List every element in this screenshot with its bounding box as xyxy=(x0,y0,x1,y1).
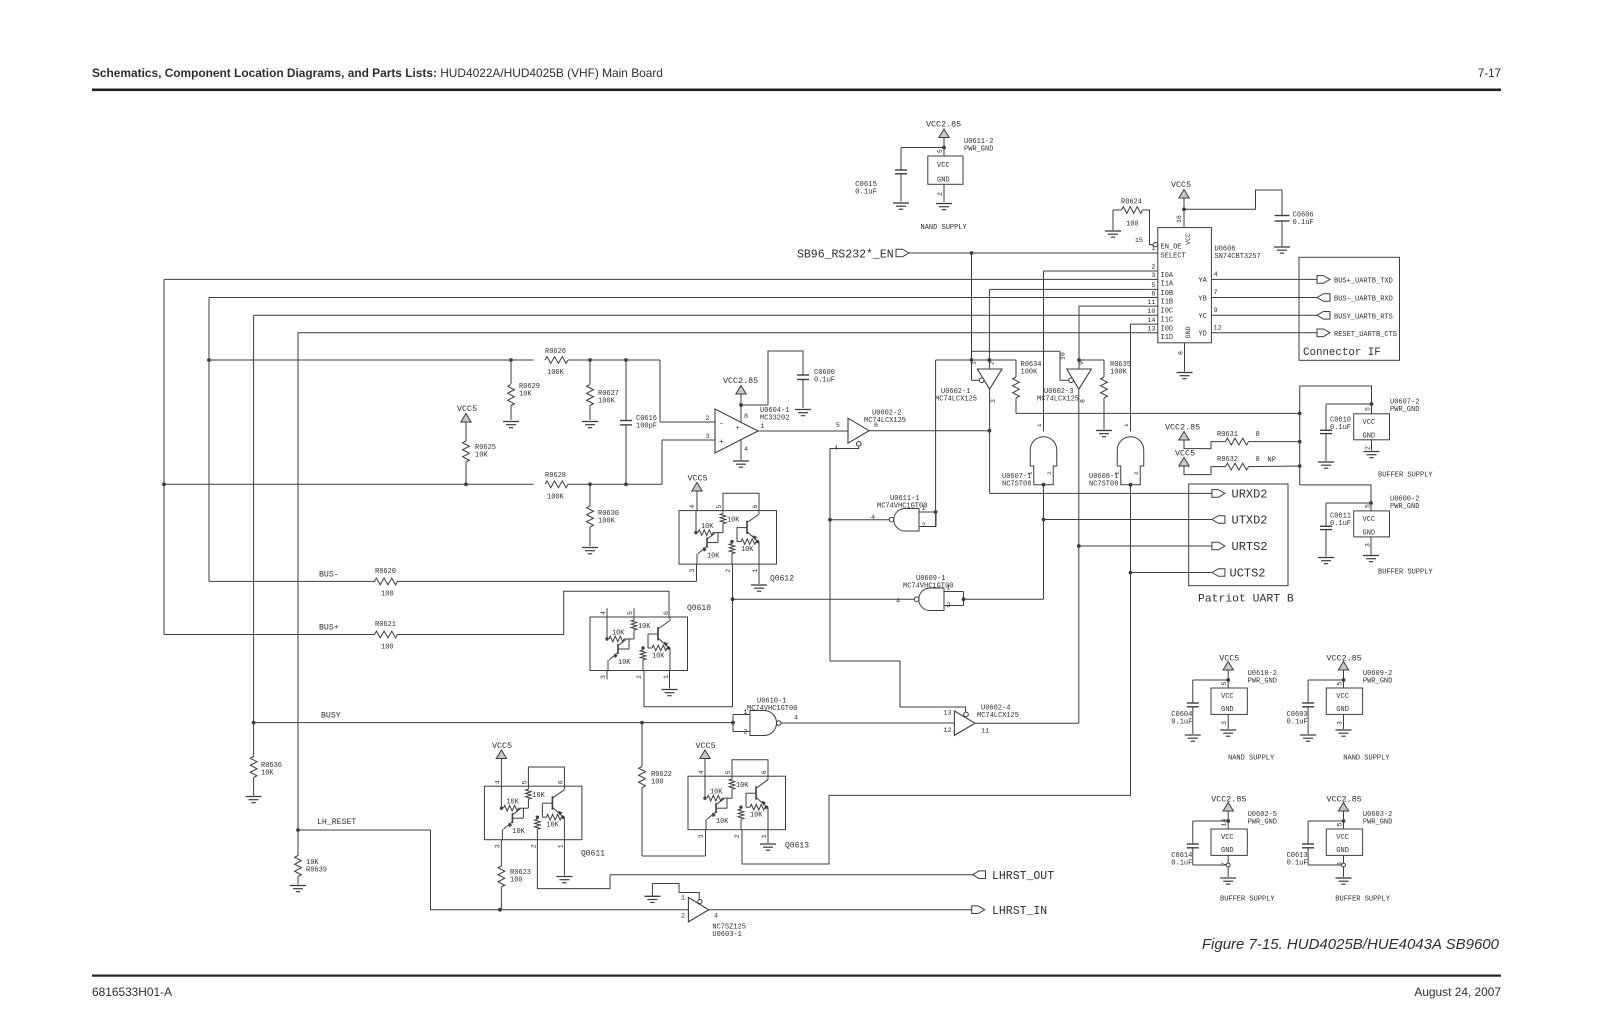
svg-text:3: 3 xyxy=(600,675,607,679)
wire VCC2.85 to R0631 xyxy=(1184,441,1226,449)
signal flag BUS+_UARTB_TXD xyxy=(1317,276,1330,284)
wire VCC5 to C0606 xyxy=(1184,190,1282,216)
NAND gate U0609-1 xyxy=(919,588,944,611)
svg-text:VCC5: VCC5 xyxy=(1219,654,1239,664)
svg-text:100K: 100K xyxy=(598,398,616,406)
svg-text:10K: 10K xyxy=(741,546,754,554)
capacitor C0604 xyxy=(1187,702,1199,704)
wire bus I1B xyxy=(209,297,1158,299)
wire VCC2.85 to op-amp pin 8 xyxy=(740,395,742,422)
svg-text:R0632: R0632 xyxy=(1217,456,1238,464)
Patriot UART B box xyxy=(1189,484,1288,586)
svg-text:I0D: I0D xyxy=(1161,325,1174,333)
svg-text:Q0613: Q0613 xyxy=(785,842,809,851)
svg-text:R0628: R0628 xyxy=(545,472,566,480)
wire U0611-1 pins tie xyxy=(919,511,936,513)
svg-text:R0620: R0620 xyxy=(375,568,396,576)
power net VCC5 above R0625 xyxy=(461,414,471,423)
power block U0602-5 box xyxy=(1211,829,1247,855)
wire node to R0626 xyxy=(209,359,534,361)
svg-text:U0603-1: U0603-1 xyxy=(712,931,741,939)
svg-text:1: 1 xyxy=(761,423,765,431)
svg-text:2: 2 xyxy=(1151,264,1155,272)
resistor R0621 xyxy=(375,631,398,638)
power block U0603-2 VCC symbol xyxy=(1338,803,1348,812)
svg-text:UCTS2: UCTS2 xyxy=(1230,567,1266,581)
svg-text:PWR_GND: PWR_GND xyxy=(1363,819,1392,827)
wire Q0612 pin1 ground xyxy=(758,564,760,584)
svg-text:100K: 100K xyxy=(547,369,565,377)
svg-text:R0631: R0631 xyxy=(1217,431,1238,439)
ground under C0611 xyxy=(1318,557,1334,559)
power block U0600-2 ground xyxy=(1370,537,1372,555)
svg-text:VCC2.85: VCC2.85 xyxy=(1327,654,1362,664)
svg-text:4: 4 xyxy=(600,611,607,615)
Connector IF box xyxy=(1299,257,1400,360)
signal flag BUS-_UARTB_RXD xyxy=(1317,294,1330,302)
signal flag URXD2 xyxy=(1212,490,1225,498)
ground under R0639 xyxy=(290,885,306,887)
svg-text:5: 5 xyxy=(1151,282,1155,290)
svg-text:11: 11 xyxy=(1147,299,1155,307)
svg-text:R0624: R0624 xyxy=(1121,199,1142,207)
wire R0624 to EN_OE xyxy=(1143,210,1154,245)
svg-text:14: 14 xyxy=(1147,317,1155,325)
wire I0A net xyxy=(1044,270,1158,272)
svg-text:4: 4 xyxy=(714,913,718,921)
wire bus I1A xyxy=(164,278,1158,280)
ground under R0636 xyxy=(246,796,262,798)
svg-text:4: 4 xyxy=(744,446,748,454)
svg-text:1: 1 xyxy=(752,569,759,573)
resistor R0627 xyxy=(589,360,591,384)
svg-text:VCC5: VCC5 xyxy=(696,741,716,751)
buffer U0602-2 xyxy=(848,418,869,443)
svg-text:VCC5: VCC5 xyxy=(457,404,477,414)
wire bus I1C xyxy=(254,314,1158,316)
signal flag UCTS2 xyxy=(1212,569,1225,577)
svg-text:100K: 100K xyxy=(547,494,565,502)
svg-text:BUFFER SUPPLY: BUFFER SUPPLY xyxy=(1335,896,1390,904)
svg-text:3: 3 xyxy=(1365,543,1372,547)
wire VCC5 to U0606 pin16 xyxy=(1183,199,1185,228)
svg-text:VCC: VCC xyxy=(1363,419,1376,427)
svg-text:GND: GND xyxy=(1185,326,1193,338)
svg-text:1: 1 xyxy=(663,675,670,679)
capacitor C0613 xyxy=(1302,843,1314,845)
power block U0607-2 ground xyxy=(1371,440,1373,451)
capacitor C0614 xyxy=(1187,843,1199,845)
svg-text:VCC2.85: VCC2.85 xyxy=(1211,795,1246,805)
svg-text:0.1uF: 0.1uF xyxy=(1287,860,1308,868)
svg-text:5: 5 xyxy=(1221,682,1228,686)
svg-text:10K: 10K xyxy=(546,822,559,830)
svg-text:10K: 10K xyxy=(710,789,723,797)
svg-text:3: 3 xyxy=(698,834,705,838)
svg-text:10K: 10K xyxy=(638,623,651,631)
svg-text:10K: 10K xyxy=(618,659,631,667)
svg-text:100K: 100K xyxy=(1021,369,1039,377)
svg-text:NAND SUPPLY: NAND SUPPLY xyxy=(921,224,968,232)
svg-text:10K: 10K xyxy=(727,517,740,525)
ground under R0627 xyxy=(582,421,598,423)
op-amp pin 4 ground xyxy=(740,441,742,461)
ground under C0615 xyxy=(893,202,909,204)
svg-text:4: 4 xyxy=(871,514,875,522)
svg-text:10K: 10K xyxy=(701,523,714,531)
wire Q0613 pins 5-6 bracket xyxy=(732,760,768,776)
svg-text:10: 10 xyxy=(1147,308,1155,316)
svg-text:R0621: R0621 xyxy=(375,621,396,629)
svg-text:100K: 100K xyxy=(1110,369,1128,377)
svg-text:BUSY: BUSY xyxy=(321,712,341,721)
wire U0602-1 output to URXD2 xyxy=(989,389,991,493)
svg-text:1: 1 xyxy=(743,709,747,717)
power block U0609-2 wires xyxy=(1343,671,1345,689)
ground at U0603-1 enable xyxy=(644,895,660,897)
svg-text:BUS+: BUS+ xyxy=(319,624,339,633)
svg-text:0.1uF: 0.1uF xyxy=(855,189,877,197)
svg-text:VCC: VCC xyxy=(1221,693,1234,701)
power net VCC5 at R0632 xyxy=(1179,458,1189,467)
wire U0611-1 input column xyxy=(936,359,990,361)
buffer U0603-1 xyxy=(688,898,708,922)
capacitor C0610 xyxy=(1325,404,1327,430)
svg-text:YC: YC xyxy=(1198,313,1206,321)
svg-text:3: 3 xyxy=(990,399,997,403)
resistor R0626 xyxy=(545,357,568,364)
wire U0609-1 output xyxy=(733,598,915,600)
svg-text:NC7ST08: NC7ST08 xyxy=(1002,481,1031,489)
svg-text:BUS-_UARTB_RXD: BUS-_UARTB_RXD xyxy=(1334,296,1393,304)
svg-text:VCC: VCC xyxy=(1221,834,1234,842)
svg-text:VCC5: VCC5 xyxy=(1175,449,1195,459)
svg-text:2: 2 xyxy=(1365,446,1372,450)
wire to C0615 xyxy=(901,147,944,149)
svg-text:VCC: VCC xyxy=(1185,233,1193,245)
svg-text:VCC5: VCC5 xyxy=(492,741,512,751)
svg-text:4: 4 xyxy=(689,505,696,509)
AND gate U0607-1 xyxy=(1030,437,1057,485)
svg-text:0.1uF: 0.1uF xyxy=(1293,219,1314,227)
resistor R0634 xyxy=(989,359,1016,361)
wire U0610-1 pins tie xyxy=(733,714,750,716)
wire Q0612 pin3 stub xyxy=(696,564,698,569)
wire Q0613 pin1 ground xyxy=(767,830,769,843)
resistor R0631 xyxy=(1226,438,1249,445)
transistor pack Q0611 box xyxy=(484,786,582,840)
power block U0603-2 ground pin xyxy=(1343,855,1345,863)
wire enable to buffers xyxy=(971,253,973,380)
svg-text:12: 12 xyxy=(943,727,951,735)
wire U0609-1 pins tie xyxy=(944,591,964,593)
signal flag LHRST_IN xyxy=(972,906,985,914)
ground under C0606 xyxy=(1274,246,1290,248)
wire Q0611 pin2 to LHRST_OUT xyxy=(537,840,610,889)
signal flag URTS2 xyxy=(1212,542,1225,550)
power block U0600-2 box xyxy=(1354,511,1390,537)
svg-text:5: 5 xyxy=(521,780,528,784)
svg-text:I1C: I1C xyxy=(1161,316,1174,324)
svg-text:8: 8 xyxy=(744,413,748,421)
svg-text:5: 5 xyxy=(725,770,732,774)
power net VCC2.85 at R0631 xyxy=(1179,432,1189,441)
transistor pack Q0610 internals xyxy=(606,617,608,639)
svg-text:1: 1 xyxy=(681,895,685,903)
power block U0602-5 wires xyxy=(1227,812,1229,830)
svg-text:4: 4 xyxy=(794,715,798,723)
header rule xyxy=(92,89,1501,92)
svg-text:Q0611: Q0611 xyxy=(581,850,605,859)
svg-text:0: 0 xyxy=(1256,431,1260,439)
svg-text:100: 100 xyxy=(651,779,664,787)
svg-text:7-17: 7-17 xyxy=(1478,67,1501,80)
svg-text:GND: GND xyxy=(1221,847,1234,855)
svg-text:6: 6 xyxy=(557,780,564,784)
svg-text:MC33202: MC33202 xyxy=(760,415,789,423)
power block U0611-2 ground pin xyxy=(943,184,945,202)
wire Q0612 pins 5-6 bracket xyxy=(723,493,759,510)
svg-text:0.1uF: 0.1uF xyxy=(814,377,835,385)
transistor pack Q0613 internals xyxy=(704,776,706,798)
svg-text:I0A: I0A xyxy=(1161,272,1174,280)
transistor pack Q0612 box xyxy=(679,511,777,564)
capacitor C0616 xyxy=(625,360,627,421)
svg-text:BUFFER SUPPLY: BUFFER SUPPLY xyxy=(1378,472,1433,480)
wire LHRST_OUT line xyxy=(610,874,973,876)
svg-text:10K: 10K xyxy=(519,391,532,399)
svg-text:I1B: I1B xyxy=(1161,299,1174,307)
svg-text:I0B: I0B xyxy=(1161,290,1174,298)
svg-text:NAND SUPPLY: NAND SUPPLY xyxy=(1343,755,1390,763)
svg-text:VCC2.85: VCC2.85 xyxy=(723,376,758,386)
buffer U0602-3 xyxy=(1067,369,1092,389)
svg-text:MC74LCX125: MC74LCX125 xyxy=(1037,396,1079,404)
svg-text:Schematics, Component Location: Schematics, Component Location Diagrams,… xyxy=(92,66,663,80)
wire LHRST_IN line xyxy=(709,909,972,911)
svg-text:5: 5 xyxy=(937,149,944,153)
wire Q0610 pin3 stub xyxy=(606,671,608,680)
wire bus to R0628 xyxy=(164,483,534,485)
svg-text:5: 5 xyxy=(716,505,723,509)
wire YC to connector xyxy=(1211,314,1317,316)
op-amp U0604-1 xyxy=(715,409,758,453)
power block U0610-2 VCC symbol xyxy=(1223,662,1233,671)
wire URTS2 line xyxy=(1079,545,1212,547)
wire BUS- left xyxy=(209,580,375,582)
svg-text:13: 13 xyxy=(943,710,951,718)
svg-text:URXD2: URXD2 xyxy=(1232,488,1268,502)
wire op-amp output to U0602-2 xyxy=(758,430,848,432)
transistor pack Q0613 box xyxy=(688,776,786,830)
svg-text:2: 2 xyxy=(743,729,747,737)
signal flag UTXD2 xyxy=(1212,516,1225,524)
svg-text:7: 7 xyxy=(1214,289,1218,297)
wire Q0611 pin1 ground xyxy=(563,840,565,876)
svg-text:SN74CBT3257: SN74CBT3257 xyxy=(1215,253,1261,261)
svg-text:0.1uF: 0.1uF xyxy=(1287,719,1308,727)
wire Q0612 pin2 to net xyxy=(732,564,734,707)
capacitor C0600 xyxy=(797,374,809,376)
svg-text:GND: GND xyxy=(937,177,950,185)
wire I0B net xyxy=(989,288,1157,290)
svg-text:MC74VHC1GT00: MC74VHC1GT00 xyxy=(877,503,927,511)
svg-text:100: 100 xyxy=(381,644,394,652)
power block U0602-5 VCC symbol xyxy=(1223,803,1233,812)
wire bus I1D xyxy=(298,332,1158,334)
svg-text:3: 3 xyxy=(706,433,710,441)
svg-text:100pF: 100pF xyxy=(636,423,657,431)
buffer U0602-4 xyxy=(954,711,975,735)
buffer U0602-1 xyxy=(977,369,1002,389)
svg-text:8: 8 xyxy=(1178,351,1185,355)
svg-text:8: 8 xyxy=(1080,399,1087,403)
svg-text:PWR_GND: PWR_GND xyxy=(1390,406,1419,414)
wire op-amp to C0600 xyxy=(741,351,803,405)
svg-text:LHRST_IN: LHRST_IN xyxy=(992,905,1047,918)
svg-text:I1D: I1D xyxy=(1161,334,1174,342)
power net VCC5 for U0606 xyxy=(1179,190,1189,199)
wire U0602-2 enable net xyxy=(830,446,966,712)
svg-text:Connector IF: Connector IF xyxy=(1303,347,1381,359)
svg-text:VCC: VCC xyxy=(1336,693,1349,701)
resistor R0639 xyxy=(295,856,302,877)
resistor R0629 xyxy=(510,360,512,384)
svg-text:+: + xyxy=(719,438,724,447)
svg-text:VCC5: VCC5 xyxy=(1171,180,1191,190)
capacitor C0606 xyxy=(1275,215,1290,217)
svg-text:2: 2 xyxy=(530,844,537,848)
svg-text:PWR_GND: PWR_GND xyxy=(964,146,993,154)
mux U0606 box xyxy=(1158,228,1212,343)
svg-text:5: 5 xyxy=(1337,823,1344,827)
svg-text:VCC2.85: VCC2.85 xyxy=(926,120,961,130)
svg-text:6: 6 xyxy=(1151,290,1155,298)
svg-text:+: + xyxy=(736,425,740,433)
svg-text:UTXD2: UTXD2 xyxy=(1232,514,1268,528)
power block U0609-2 VCC symbol xyxy=(1338,662,1348,671)
capacitor C0615 xyxy=(895,169,907,171)
footer rule xyxy=(92,975,1501,977)
svg-text:0.1uF: 0.1uF xyxy=(1330,424,1351,432)
NAND gate U0611-1 xyxy=(894,509,919,532)
resistor R0624 xyxy=(1113,209,1122,211)
svg-text:YB: YB xyxy=(1198,295,1206,303)
transistor pack Q0611 internals xyxy=(500,786,502,808)
wire YB to connector xyxy=(1211,297,1317,299)
svg-text:2: 2 xyxy=(706,415,710,423)
svg-text:0.1uF: 0.1uF xyxy=(1171,719,1192,727)
svg-text:VCC5: VCC5 xyxy=(688,474,708,484)
svg-text:Patriot UART B: Patriot UART B xyxy=(1198,594,1294,606)
ground under R0630 xyxy=(582,547,598,549)
wire BUS+ left xyxy=(164,634,375,636)
signal flag BUSY_UARTB_RTS xyxy=(1317,312,1330,320)
NAND gate U0610-1 xyxy=(750,711,777,736)
svg-text:GND: GND xyxy=(1221,706,1234,714)
svg-text:BUS+_UARTB_TXD: BUS+_UARTB_TXD xyxy=(1334,277,1393,285)
wire I0C net xyxy=(1079,305,1158,307)
svg-text:10: 10 xyxy=(1060,352,1067,360)
svg-text:15: 15 xyxy=(1135,237,1143,245)
wire U0607-1 output net xyxy=(1043,485,1045,600)
svg-text:VCC: VCC xyxy=(1336,834,1349,842)
svg-text:2: 2 xyxy=(636,675,643,679)
svg-text:11: 11 xyxy=(981,728,989,736)
svg-text:10K: 10K xyxy=(475,452,488,460)
svg-text:PWR_GND: PWR_GND xyxy=(1363,678,1392,686)
signal flag RESET_UARTB_CTS xyxy=(1317,329,1330,337)
wire YD to connector xyxy=(1211,332,1317,334)
power block U0603-2 box xyxy=(1326,829,1362,855)
capacitor C0611 xyxy=(1325,503,1327,526)
svg-text:16: 16 xyxy=(1176,215,1183,223)
buffer U0603-1 enable path xyxy=(652,884,699,900)
svg-text:6816533H01-A: 6816533H01-A xyxy=(92,985,172,999)
wire U0611-1 output xyxy=(830,519,889,521)
ground under R0624 xyxy=(1112,210,1114,230)
svg-text:I1A: I1A xyxy=(1161,281,1174,289)
power block U0607-2 box xyxy=(1354,414,1390,440)
power block U0603-2 wires xyxy=(1343,812,1345,830)
svg-text:BUFFER SUPPLY: BUFFER SUPPLY xyxy=(1378,569,1433,577)
signal flag LHRST_OUT xyxy=(973,871,986,879)
svg-text:2: 2 xyxy=(1046,471,1053,475)
svg-text:Figure 7-15. HUD4025B/HUE4043A: Figure 7-15. HUD4025B/HUE4043A SB9600 xyxy=(1202,936,1500,953)
mux U0606 GND pin xyxy=(1184,343,1186,372)
wire buffer supply rail vertical xyxy=(1299,386,1301,485)
svg-text:BUFFER SUPPLY: BUFFER SUPPLY xyxy=(1220,896,1275,904)
wire BUS- to Q0612 xyxy=(397,580,697,582)
wire BUSY xyxy=(254,722,733,724)
svg-text:10K: 10K xyxy=(716,818,729,826)
wire LH_RESET xyxy=(298,830,688,910)
svg-text:GND: GND xyxy=(1363,530,1376,538)
wire Q0610 pin1 ground xyxy=(669,671,671,689)
svg-text:0.1uF: 0.1uF xyxy=(1330,520,1351,528)
svg-text:I0C: I0C xyxy=(1161,307,1174,315)
svg-text:5: 5 xyxy=(1337,682,1344,686)
ground under R0635 xyxy=(1096,430,1112,432)
svg-text:2: 2 xyxy=(725,569,732,573)
svg-text:0.1uF: 0.1uF xyxy=(1171,860,1192,868)
wire BUS+ to Q0610 pin6 xyxy=(397,591,669,634)
power block U0610-2 wires xyxy=(1227,671,1229,689)
resistor R0636 xyxy=(250,757,257,778)
svg-text:GND: GND xyxy=(1336,706,1349,714)
resistor R0628 xyxy=(545,481,568,488)
wire R0622 to Q0613 pin3 xyxy=(642,855,706,857)
svg-text:10K: 10K xyxy=(512,828,525,836)
svg-text:13: 13 xyxy=(1147,326,1155,334)
svg-text:10K: 10K xyxy=(612,630,625,638)
power block U0610-2 ground pin xyxy=(1227,714,1229,729)
wire Q0611 pin3 to R0623 xyxy=(500,840,502,866)
resistor R0632 xyxy=(1226,463,1249,470)
svg-text:1: 1 xyxy=(761,834,768,838)
wire Q0610 pin2 jog xyxy=(644,671,733,707)
svg-text:PWR_GND: PWR_GND xyxy=(1248,678,1277,686)
svg-text:3: 3 xyxy=(1337,721,1344,725)
svg-text:-: - xyxy=(719,420,724,429)
svg-text:RESET_UARTB_CTS: RESET_UARTB_CTS xyxy=(1334,331,1397,339)
svg-text:1: 1 xyxy=(1036,423,1043,427)
svg-text:NAND SUPPLY: NAND SUPPLY xyxy=(1228,755,1275,763)
wire U0602-2 output xyxy=(869,430,989,432)
svg-text:3: 3 xyxy=(494,844,501,848)
svg-text:BUSY_UARTB_RTS: BUSY_UARTB_RTS xyxy=(1334,313,1393,321)
power block U0610-2 box xyxy=(1211,688,1247,714)
